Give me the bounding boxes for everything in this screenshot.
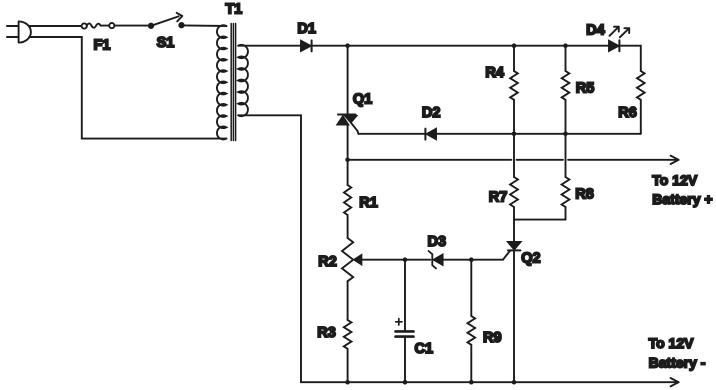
resistor R1 bbox=[347, 160, 349, 185]
AC plug bbox=[7, 26, 19, 37]
svg-text:R8: R8 bbox=[575, 187, 594, 203]
wire secondary top to D1 bbox=[238, 45, 301, 47]
resistor R5 bbox=[565, 46, 567, 71]
node: R4 bottom bbox=[512, 132, 517, 137]
node: C1 top bbox=[403, 257, 408, 262]
svg-text:R7: R7 bbox=[489, 189, 508, 205]
resistor R4 bbox=[513, 46, 515, 71]
potentiometer R2 bbox=[342, 238, 353, 281]
wire fuse to switch bbox=[114, 25, 148, 27]
svg-text:Battery -: Battery - bbox=[649, 355, 706, 371]
svg-text:C1: C1 bbox=[415, 341, 434, 357]
diode D1 bbox=[301, 41, 311, 51]
wire D1 to top rail bbox=[312, 45, 609, 47]
svg-text:To 12V: To 12V bbox=[652, 172, 698, 188]
svg-text:To 12V: To 12V bbox=[649, 335, 695, 351]
diode D2 bbox=[424, 129, 426, 140]
resistor R9 bbox=[470, 260, 472, 316]
svg-text:R9: R9 bbox=[483, 330, 502, 346]
transformer T1 secondary winding bbox=[238, 45, 248, 116]
node: D1 / Q1 junction bbox=[345, 43, 350, 48]
resistor R7 bbox=[513, 134, 515, 177]
gate rail wire (Q1 gate through D2 to R4/R5/R6 bottoms) bbox=[358, 133, 640, 135]
node: R3 bottom bbox=[345, 380, 350, 385]
fuse F1 bbox=[82, 23, 87, 28]
svg-text:R2: R2 bbox=[318, 254, 337, 270]
wire Q1 cathode down to battery+ node bbox=[347, 124, 349, 159]
wire plug to fuse (hot) bbox=[29, 25, 81, 27]
transformer T1 primary winding bbox=[217, 25, 226, 139]
node: R9 top bbox=[469, 257, 474, 262]
LED D4 bbox=[609, 41, 618, 51]
node: C1 bottom bbox=[403, 380, 408, 385]
thyristor Q2 bbox=[513, 220, 515, 242]
svg-text:R6: R6 bbox=[618, 105, 637, 121]
wire Q2 cathode to bottom rail bbox=[513, 250, 515, 382]
svg-text:R4: R4 bbox=[485, 65, 504, 81]
svg-text:D2: D2 bbox=[422, 105, 441, 121]
wire switch to transformer bbox=[184, 24, 227, 27]
svg-text:Battery +: Battery + bbox=[652, 191, 712, 207]
resistor R6 bbox=[637, 71, 645, 100]
wire D4 to R6 top bbox=[619, 46, 640, 71]
battery plus rail with crossover gaps and arrow bbox=[348, 159, 679, 161]
node: Q2 cathode bottom bbox=[512, 380, 517, 385]
svg-text:R3: R3 bbox=[317, 325, 336, 341]
transformer T1 core bbox=[231, 24, 235, 141]
resistor R3 bbox=[344, 320, 352, 349]
node: R4 top bbox=[512, 43, 517, 48]
svg-text:F1: F1 bbox=[94, 37, 111, 53]
node: R9 bottom bbox=[469, 380, 474, 385]
node: R5 top bbox=[563, 43, 568, 48]
svg-text:S1: S1 bbox=[157, 35, 175, 51]
wire plug neutral down and to transformer bbox=[29, 37, 226, 139]
bottom rail with arrow bbox=[301, 381, 679, 383]
node: battery plus branch bbox=[345, 158, 350, 163]
switch S1 bbox=[149, 24, 153, 28]
svg-text:T1: T1 bbox=[225, 1, 242, 17]
svg-text:Q1: Q1 bbox=[353, 92, 372, 108]
zener diode D3 bbox=[429, 251, 436, 268]
svg-text:R5: R5 bbox=[576, 81, 595, 97]
svg-text:R1: R1 bbox=[359, 195, 378, 211]
capacitor C1 bbox=[404, 260, 406, 331]
svg-text:D1: D1 bbox=[297, 21, 316, 37]
resistor R8 bbox=[565, 134, 567, 177]
thyristor Q1 bbox=[347, 46, 349, 115]
svg-text:Q2: Q2 bbox=[521, 251, 540, 267]
svg-text:D4: D4 bbox=[586, 23, 605, 39]
svg-text:D3: D3 bbox=[428, 234, 447, 250]
wire R7/R8 bottom connector bbox=[514, 219, 566, 221]
node: R5 bottom bbox=[563, 132, 568, 137]
wiper rail wire (R2 wiper to D3 to Q2 gate) bbox=[361, 259, 503, 261]
wire secondary bottom to left drop bbox=[238, 115, 301, 382]
